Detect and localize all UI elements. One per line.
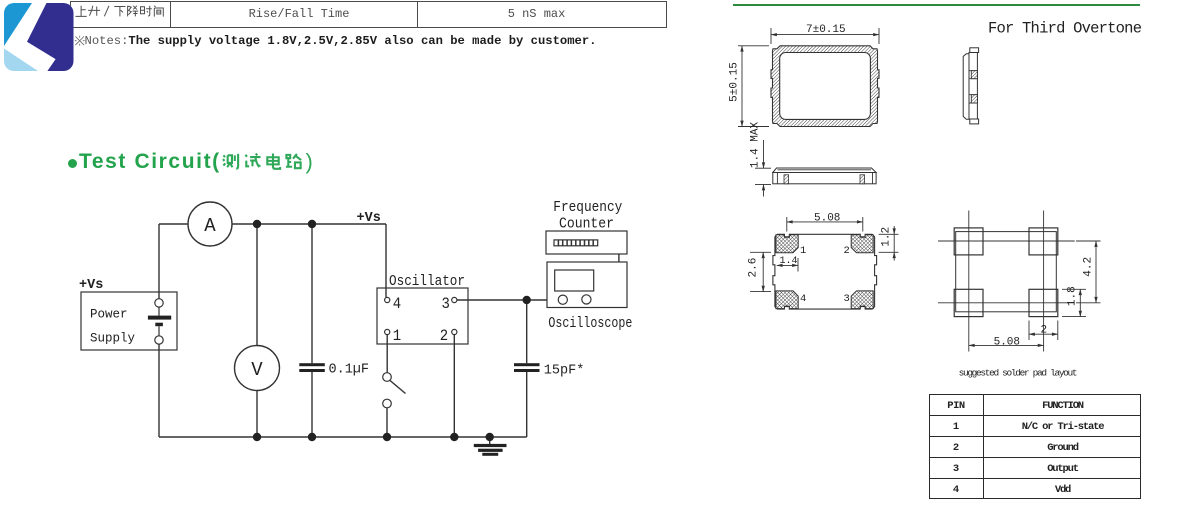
side view bottom cap — [970, 119, 979, 124]
heading bullet — [68, 159, 77, 168]
svg-text:1.2: 1.2 — [881, 227, 893, 247]
pin table column divider — [983, 394, 984, 499]
battery stem top — [158, 307, 160, 316]
wire ground stem — [489, 437, 491, 445]
switch lever — [390, 381, 406, 394]
oscilloscope knob left — [558, 295, 567, 304]
svg-text:5±0.15: 5±0.15 — [729, 62, 741, 102]
pad 1 (top-left) hatched — [776, 235, 798, 253]
svg-text:2: 2 — [844, 245, 850, 257]
svg-text:5.08: 5.08 — [814, 213, 840, 225]
oscilloscope screen — [555, 270, 594, 291]
heading closing paren — [306, 149, 313, 175]
wire left vertical to power supply — [158, 224, 160, 299]
logo light blue triangle — [4, 49, 38, 72]
capacitor 15pF plates — [514, 363, 540, 366]
wire 0.1uF branch upper — [311, 224, 313, 363]
svg-text:Supply: Supply — [90, 332, 136, 346]
wire voltmeter branch lower — [256, 391, 258, 438]
package top view outer hatched body — [771, 46, 879, 127]
wire connector frequency counter to oscilloscope — [618, 254, 620, 262]
wire +Vs drop to oscillator pin4 — [385, 224, 387, 297]
pin table row line 4 — [929, 478, 1141, 479]
table row: Rise/Fall Time — [70, 1, 667, 28]
green rule — [733, 4, 1140, 6]
svg-text:3: 3 — [442, 295, 450, 313]
wire 0.1uF branch lower — [311, 372, 313, 437]
wire 15pF branch lower — [526, 372, 528, 437]
pin 3 circle — [452, 297, 457, 302]
oscilloscope box — [547, 262, 627, 308]
svg-text:2: 2 — [1041, 325, 1048, 337]
solder pad bottom-left — [954, 289, 983, 316]
svg-text:+Vs: +Vs — [79, 278, 103, 293]
frequency counter display — [554, 240, 598, 246]
svg-text:Oscilloscope: Oscilloscope — [548, 315, 632, 332]
oscilloscope knob right — [582, 295, 591, 304]
notes reference mark — [75, 36, 85, 46]
svg-text:Oscillator: Oscillator — [389, 273, 465, 290]
svg-text:1.4 MAX: 1.4 MAX — [750, 122, 762, 169]
side view pad 1 hatched — [971, 71, 977, 79]
pin table texts — [929, 400, 983, 412]
battery terminal bottom circle — [155, 336, 163, 344]
centerline horizontal top — [938, 240, 1075, 242]
svg-text:Frequency: Frequency — [553, 199, 622, 216]
battery long plate — [148, 316, 171, 320]
cell text Rise/Fall Time — [171, 7, 427, 21]
logo medium blue triangle — [4, 3, 32, 46]
centerline vertical left — [968, 211, 970, 352]
battery terminal top circle — [155, 299, 163, 307]
wire bottom ground rail — [159, 436, 527, 438]
heading CJK 测试电路 (drawn glyphs) — [223, 153, 301, 168]
profile foot left — [776, 173, 778, 184]
profile base — [773, 173, 876, 184]
svg-text:4: 4 — [800, 293, 806, 305]
package outline overlay — [956, 232, 1057, 312]
svg-text:Power: Power — [90, 308, 128, 322]
solder pad top-right — [1029, 228, 1058, 255]
pin 2 circle — [452, 329, 457, 334]
svg-text:3: 3 — [844, 293, 850, 305]
pad 3 (bottom-right) hatched — [851, 291, 873, 309]
profile pad right hatched — [860, 175, 865, 184]
wire switch to ground rail — [386, 408, 388, 437]
pin table row line 3 — [929, 457, 1141, 458]
table divider 1 — [170, 1, 171, 28]
oscillator box — [377, 288, 468, 344]
voltmeter V — [235, 346, 280, 391]
pin table frame — [929, 394, 1141, 499]
svg-text:15pF*: 15pF* — [544, 364, 585, 379]
svg-text:+Vs: +Vs — [357, 211, 381, 226]
centerline vertical right — [1043, 211, 1045, 352]
svg-text:2.6: 2.6 — [747, 258, 759, 278]
centerline horizontal bottom — [938, 302, 1075, 304]
svg-text:Counter: Counter — [559, 216, 614, 233]
svg-text:For Third Overtone: For Third Overtone — [988, 20, 1142, 38]
frequency counter box — [546, 231, 627, 254]
svg-text:7±0.15: 7±0.15 — [806, 24, 846, 36]
pin table row line 1 — [929, 415, 1141, 416]
cell text 5 nS max — [418, 7, 655, 21]
svg-text:4: 4 — [393, 295, 401, 313]
wire 15pF branch upper — [526, 300, 528, 363]
heading Test Circuit — [79, 150, 221, 174]
solder pad top-left — [954, 228, 983, 255]
svg-text:2: 2 — [440, 327, 448, 345]
side view top cap — [970, 48, 979, 53]
svg-text:1: 1 — [800, 245, 806, 257]
wire top horizontal ammeter to +Vs corner — [232, 223, 386, 225]
pad 2 (top-right) hatched — [851, 235, 873, 253]
side view pad 2 hatched — [971, 95, 977, 103]
wire top left horizontal to ammeter — [159, 223, 188, 225]
svg-text:4.2: 4.2 — [1082, 257, 1094, 277]
pin table row line 2 — [929, 436, 1141, 437]
svg-text:5.08: 5.08 — [994, 336, 1020, 348]
table divider 2 — [417, 1, 418, 28]
switch bottom contact — [383, 399, 392, 408]
svg-text:suggested solder pad layout: suggested solder pad layout — [959, 368, 1078, 379]
side view pad divider lines — [969, 71, 977, 103]
profile pad left hatched — [784, 175, 789, 184]
profile lid — [773, 168, 876, 173]
wire oscillator pin3 to oscilloscope — [457, 299, 547, 301]
pad 4 (bottom-left) hatched — [776, 291, 798, 309]
junction dots — [253, 220, 531, 441]
battery stem bottom — [158, 326, 160, 336]
svg-text:1: 1 — [393, 327, 401, 345]
wire pin2 to ground rail — [453, 335, 455, 437]
pin 1 circle — [385, 329, 390, 334]
capacitor 0.1uF plates — [299, 363, 325, 366]
profile foot right — [872, 173, 874, 184]
CJK text 上升/下降时间 (drawn glyphs) — [75, 6, 163, 17]
svg-text:0.1µF: 0.1µF — [329, 363, 370, 378]
solder pad bottom-right — [1029, 289, 1058, 316]
battery short plate — [155, 323, 163, 327]
logo dark K shape — [27, 3, 74, 71]
notes text — [85, 34, 597, 48]
power supply box — [81, 292, 177, 350]
ammeter A — [188, 202, 232, 246]
side view body slab — [963, 54, 969, 120]
wire pin1 to switch — [386, 335, 388, 373]
side view main column — [969, 53, 977, 120]
switch top contact — [383, 373, 392, 382]
svg-text:A: A — [204, 215, 216, 237]
pin 4 circle — [385, 297, 390, 302]
wire power supply bottom to ground rail — [158, 344, 160, 437]
wire voltmeter branch upper — [256, 224, 258, 346]
ground symbol — [474, 444, 507, 447]
logo — [4, 3, 74, 71]
bottom view outline — [773, 234, 877, 309]
package top view inner cavity — [780, 53, 871, 120]
svg-text:V: V — [251, 359, 263, 381]
